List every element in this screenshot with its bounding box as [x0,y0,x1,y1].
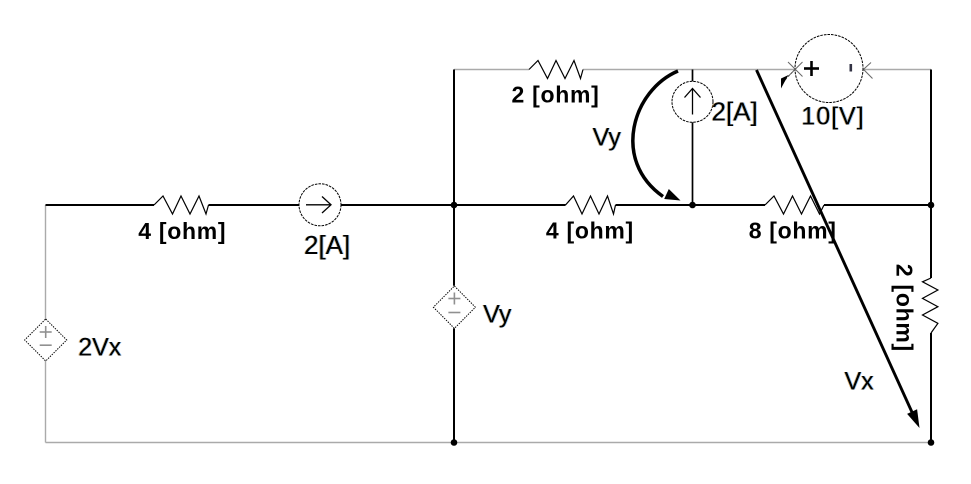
svg-text:Vx: Vx [845,368,875,396]
svg-text:Vy: Vy [483,301,512,329]
svg-text:2[A]: 2[A] [712,96,758,126]
svg-text:2 [ohm]: 2 [ohm] [512,82,600,108]
svg-text:2[A]: 2[A] [304,230,350,260]
svg-text:Vy: Vy [593,124,622,152]
svg-text:10[V]: 10[V] [801,103,864,131]
svg-text:2Vx: 2Vx [78,334,122,362]
svg-text:4 [ohm]: 4 [ohm] [138,218,226,244]
svg-text:8 [ohm]: 8 [ohm] [749,218,837,244]
svg-text:4 [ohm]: 4 [ohm] [546,218,634,244]
svg-text:2 [ohm]: 2 [ohm] [891,264,917,352]
